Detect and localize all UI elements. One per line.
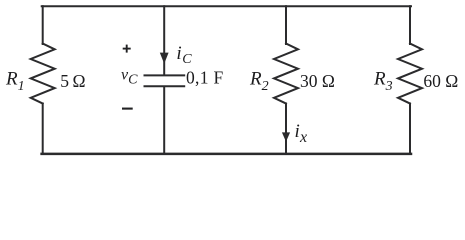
wire R2 branch lower [285,104,287,154]
wire top rail [42,5,411,7]
resistor R3 [398,44,422,104]
wire capacitor branch lower [163,87,165,154]
svg-text:5 Ω: 5 Ω [60,71,85,91]
wire right branch upper [409,6,411,44]
wire left branch lower [42,104,44,154]
wire right branch lower [409,104,411,154]
svg-text:0,1 F: 0,1 F [186,68,223,88]
resistor R1 [31,44,55,104]
capacitor C top plate [145,74,185,76]
svg-text:60 Ω: 60 Ω [423,71,458,91]
capacitor C bottom plate [145,85,185,87]
wire R2 branch upper [285,6,287,44]
svg-text:30 Ω: 30 Ω [300,71,335,91]
wire bottom rail [42,153,411,156]
current arrow iC [160,53,169,64]
polarity - of vC [122,108,133,110]
resistor R2 [274,44,298,104]
wire left branch upper [42,6,44,44]
wire capacitor branch upper [163,6,165,74]
current arrow ix [282,132,290,141]
polarity + of vC [123,45,131,53]
